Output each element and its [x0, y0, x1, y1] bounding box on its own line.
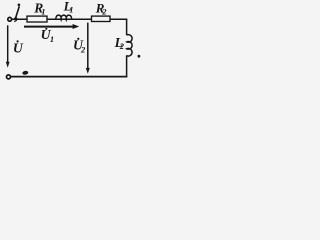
svg-text:2: 2 — [119, 41, 125, 51]
svg-text:1: 1 — [50, 34, 54, 44]
svg-text:1: 1 — [69, 5, 73, 15]
svg-text:1: 1 — [41, 7, 45, 17]
svg-text:2: 2 — [80, 44, 86, 54]
svg-text:2: 2 — [101, 7, 107, 17]
svg-text:U: U — [13, 40, 24, 55]
